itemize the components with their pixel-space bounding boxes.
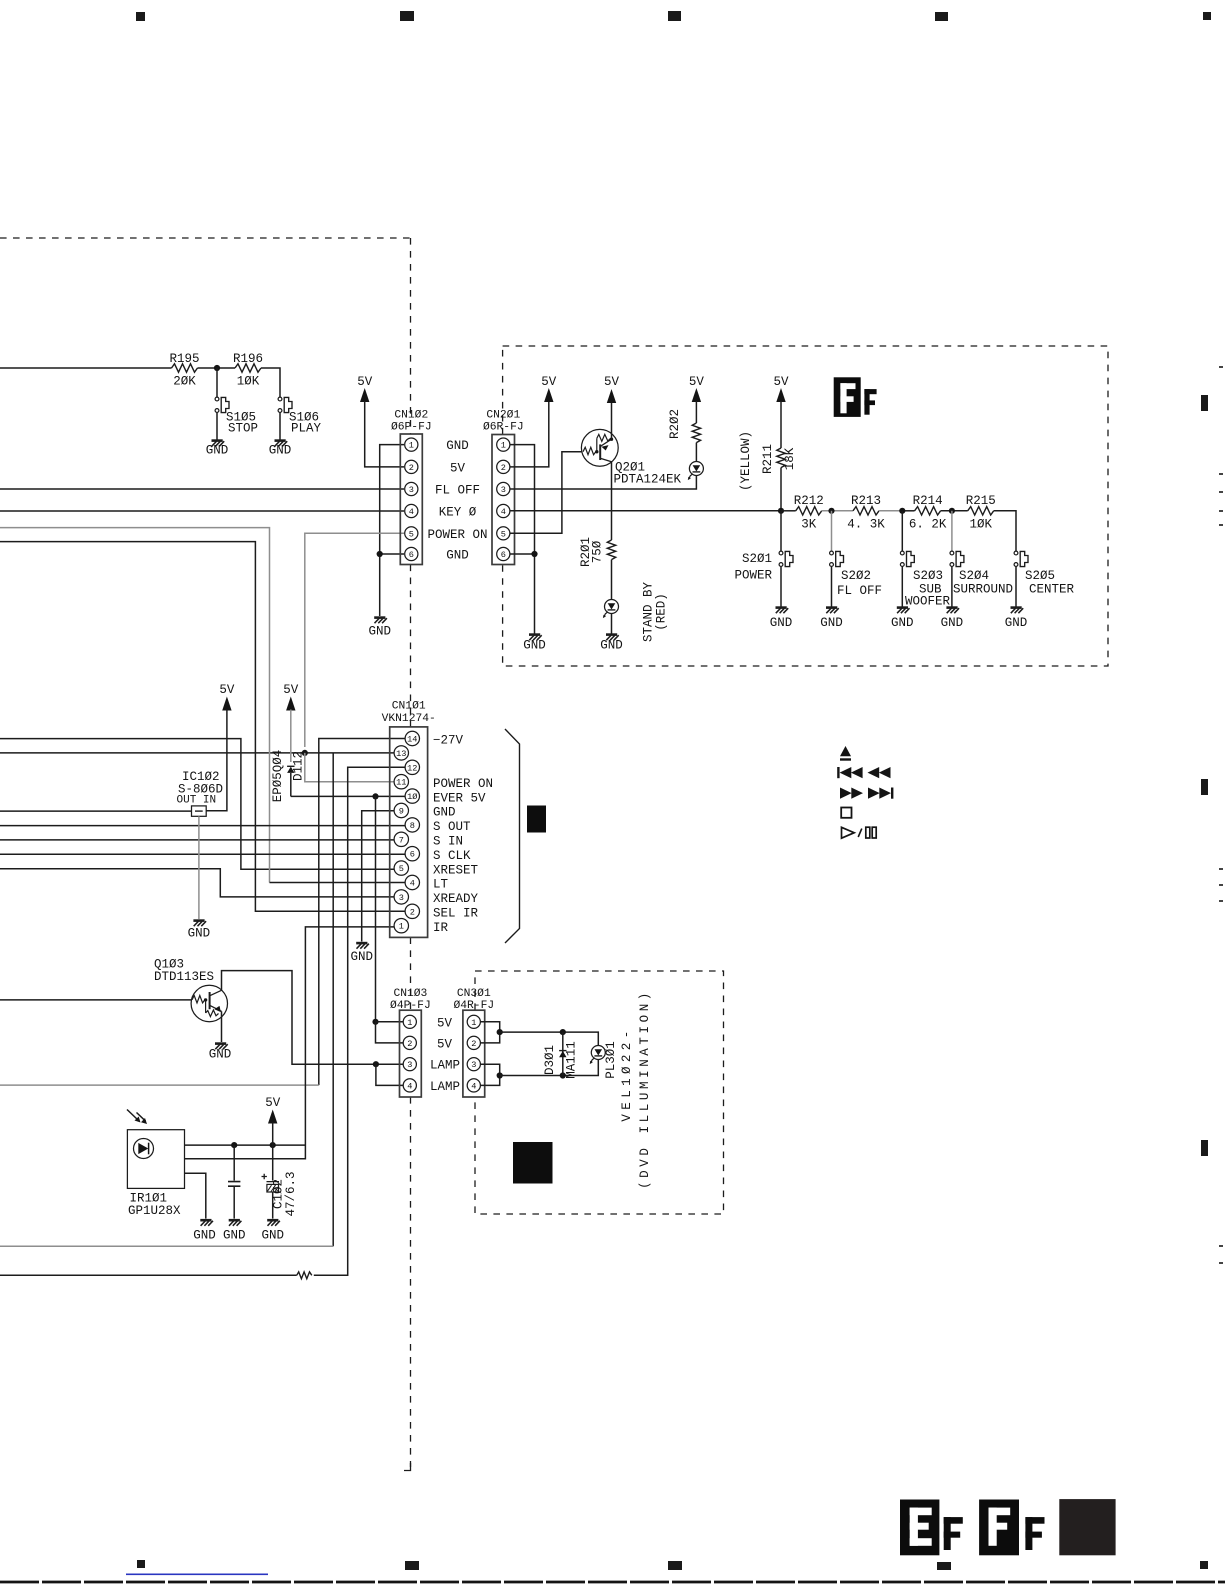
pin 4 CN103 bbox=[403, 1079, 416, 1092]
pin 14 CN101 bbox=[405, 731, 419, 745]
svg-text:(RED): (RED) bbox=[655, 593, 669, 631]
svg-text:GND: GND bbox=[223, 1229, 246, 1243]
svg-text:3: 3 bbox=[407, 1060, 412, 1070]
svg-text:GND: GND bbox=[600, 639, 623, 653]
svg-text:R213: R213 bbox=[851, 494, 881, 508]
switch S105 bbox=[215, 397, 229, 413]
wire S CLK from left edge to pin6 bbox=[0, 853, 406, 855]
wire R211 to ladder node bbox=[780, 468, 782, 511]
wire R212 to node B bbox=[822, 510, 853, 512]
resistor R201 750 bbox=[607, 540, 615, 560]
svg-text:Ø4P-FJ: Ø4P-FJ bbox=[390, 1000, 431, 1012]
icon fast forward / next track bbox=[840, 788, 852, 799]
wire Q103 base from left edge bbox=[0, 999, 193, 1001]
resistor R196 bbox=[235, 364, 261, 372]
bottom film edge dashed line bbox=[0, 1581, 1225, 1584]
connector CN301 body bbox=[463, 1010, 485, 1097]
wire D301 column bbox=[562, 1032, 564, 1075]
svg-text:6: 6 bbox=[410, 850, 415, 860]
registration mark bottom 3 bbox=[668, 1561, 682, 1570]
svg-text:1ØK: 1ØK bbox=[237, 375, 260, 389]
dashed border DVD illumination section bbox=[475, 971, 724, 1214]
node CN102 pin6 junction bbox=[377, 551, 383, 557]
svg-text:S2Ø3: S2Ø3 bbox=[913, 569, 943, 583]
svg-text:3: 3 bbox=[399, 893, 404, 903]
svg-text:VEL1Ø22-: VEL1Ø22- bbox=[620, 1026, 634, 1121]
wire R196 to S106 drop bbox=[261, 368, 280, 397]
svg-text:PDTA124EK: PDTA124EK bbox=[614, 473, 682, 487]
svg-text:CN2Ø1: CN2Ø1 bbox=[486, 410, 520, 422]
svg-text:2: 2 bbox=[410, 907, 415, 917]
wire grey -27V feed from left edge bbox=[0, 1084, 319, 1086]
pin 5 CN102 bbox=[405, 527, 418, 540]
wire 5V to R211 bbox=[780, 401, 782, 448]
svg-text:3K: 3K bbox=[801, 518, 817, 532]
wire L1 from left edge to CN101 pin4 LT bbox=[0, 528, 270, 883]
wire Q103 emitter to ground bbox=[221, 1011, 223, 1042]
registration mark right 3 bbox=[1201, 1140, 1208, 1156]
svg-text:5: 5 bbox=[409, 529, 414, 539]
node ladder C bbox=[899, 508, 905, 514]
wire 5V to CN102 pin2 bbox=[365, 401, 404, 467]
pin 13 CN101 bbox=[394, 746, 408, 760]
svg-text:1: 1 bbox=[399, 922, 404, 932]
IR receiver IR101 GP1U28X bbox=[127, 1130, 184, 1189]
svg-text:2ØK: 2ØK bbox=[173, 375, 196, 389]
pin 5 CN101 bbox=[394, 861, 408, 875]
svg-text:LAMP: LAMP bbox=[430, 1059, 460, 1073]
power symbol 5V (R211) bbox=[776, 388, 785, 402]
ground S106 bbox=[275, 441, 288, 447]
power symbol 5V (CN201 pin2) bbox=[544, 388, 553, 402]
wire CN102 pin1 to pin6 tie to ground bbox=[380, 445, 404, 616]
wire 5V to diode D112 bbox=[290, 710, 292, 763]
pin 3 CN201 bbox=[497, 482, 510, 495]
wire CN201 pin5 POWER ON to Q201 base bbox=[510, 452, 583, 534]
wire LED to ground bbox=[611, 614, 613, 635]
black square in DVD illumination box bbox=[513, 1142, 553, 1184]
power symbol 5V (IC102 IN) bbox=[222, 697, 231, 711]
pin 2 CN301 bbox=[467, 1036, 480, 1049]
wire S105 to ground bbox=[216, 413, 218, 441]
svg-text:1: 1 bbox=[471, 1018, 476, 1028]
svg-text:5V: 5V bbox=[265, 1096, 281, 1110]
dashed border left board: top edge bbox=[0, 237, 411, 239]
svg-text:R212: R212 bbox=[794, 494, 824, 508]
connector CN102 body bbox=[400, 434, 422, 565]
pin 1 CN201 bbox=[497, 438, 510, 451]
pin 4 CN301 bbox=[467, 1079, 480, 1092]
pin 1 CN301 bbox=[467, 1015, 480, 1028]
pin 1 CN101 bbox=[394, 919, 408, 933]
wire IC102 GND stem bbox=[198, 816, 200, 919]
svg-text:4: 4 bbox=[407, 1081, 412, 1091]
pin 4 CN201 bbox=[497, 504, 510, 517]
svg-text:D3Ø1: D3Ø1 bbox=[543, 1045, 557, 1075]
power symbol 5V (R202) bbox=[692, 388, 701, 402]
svg-text:CN1Ø2: CN1Ø2 bbox=[394, 410, 428, 422]
node ladder D bbox=[949, 508, 955, 514]
wire S IN from left edge to pin7 bbox=[0, 839, 395, 841]
resistor R214 6.2K bbox=[915, 507, 941, 515]
svg-text:18K: 18K bbox=[783, 447, 797, 470]
svg-text:LAMP: LAMP bbox=[430, 1080, 460, 1094]
svg-text:(DVD ILLUMINATION): (DVD ILLUMINATION) bbox=[638, 989, 652, 1189]
pin 4 CN102 bbox=[405, 504, 418, 517]
wire Q103 collector to CN103 pin3 bbox=[222, 971, 404, 1065]
node junction CN301 upper bbox=[497, 1029, 503, 1035]
svg-text:GND: GND bbox=[1005, 616, 1028, 630]
svg-text:S2Ø5: S2Ø5 bbox=[1025, 569, 1055, 583]
wire EVER 5V down to CN103 pin1 bbox=[375, 796, 377, 1021]
svg-text:EVER 5V: EVER 5V bbox=[433, 791, 486, 805]
capacitor C101 bbox=[233, 1145, 235, 1181]
svg-text:9: 9 bbox=[399, 807, 404, 817]
pin 2 CN101 bbox=[405, 904, 419, 918]
resistor R212 3K bbox=[781, 510, 796, 512]
ground C101 bbox=[229, 1220, 242, 1226]
svg-text:GND: GND bbox=[446, 439, 469, 453]
pin 3 CN301 bbox=[467, 1058, 480, 1071]
LED FL OFF (YELLOW) bbox=[688, 462, 704, 481]
svg-text:5V: 5V bbox=[541, 375, 557, 389]
svg-text:PL3Ø1: PL3Ø1 bbox=[604, 1041, 618, 1079]
photodiode inside IR101 bbox=[134, 1139, 154, 1159]
wire lower lamp rail bbox=[500, 1060, 599, 1076]
pin 3 CN101 bbox=[394, 890, 408, 904]
wire S106 to ground bbox=[279, 413, 281, 441]
svg-text:2: 2 bbox=[407, 1039, 412, 1049]
wire R195 to R196 with junction bbox=[198, 367, 236, 369]
dashed border left board: bottom corner hook bbox=[404, 1463, 411, 1471]
registration mark top 5 bbox=[1203, 12, 1211, 20]
svg-text:VKN1274-: VKN1274- bbox=[382, 713, 436, 725]
svg-text:CENTER: CENTER bbox=[1029, 583, 1075, 597]
registration mark bottom 2 bbox=[405, 1561, 419, 1570]
wire CN201 pin1 to pin6 tie to ground bbox=[510, 445, 535, 634]
incoming light arrows bbox=[127, 1110, 146, 1122]
wire pin12 to V4 riser down to zigzag line bbox=[314, 767, 406, 1275]
wire pin9 GND drop bbox=[362, 811, 406, 942]
wire CN301 pins3,4 tie bbox=[481, 1064, 500, 1085]
pin 10 CN101 bbox=[405, 789, 419, 803]
svg-text:R196: R196 bbox=[233, 352, 263, 366]
icon previous track / rewind bbox=[837, 767, 839, 778]
svg-text:GND: GND bbox=[269, 444, 292, 458]
pin 1 CN102 bbox=[405, 438, 418, 451]
svg-text:POWER ON: POWER ON bbox=[427, 528, 487, 542]
switch S201 POWER bbox=[780, 511, 782, 551]
dashed border F section bbox=[503, 346, 1108, 666]
svg-text:Ø6R-FJ: Ø6R-FJ bbox=[483, 422, 524, 434]
svg-text:GND: GND bbox=[193, 1229, 216, 1243]
pin 12 CN101 bbox=[405, 760, 419, 774]
switch S205 CENTER bbox=[1014, 551, 1028, 567]
pin 7 CN101 bbox=[394, 832, 408, 846]
svg-text:1Ø: 1Ø bbox=[407, 792, 417, 802]
node CN201 pin6 junction bbox=[531, 551, 537, 557]
logo F block bbox=[979, 1500, 1019, 1556]
wire 5V to R202 bbox=[695, 401, 697, 423]
logo F letter bbox=[864, 389, 876, 415]
svg-text:STOP: STOP bbox=[228, 422, 258, 436]
svg-text:6: 6 bbox=[501, 550, 506, 560]
svg-text:GND: GND bbox=[770, 616, 793, 630]
svg-text:2: 2 bbox=[409, 463, 414, 473]
pin 2 CN102 bbox=[405, 460, 418, 473]
svg-text:STAND BY: STAND BY bbox=[642, 581, 656, 642]
wire from left edge to R195 bbox=[0, 367, 172, 369]
wire CN103 pin3/pin4 tie bbox=[376, 1064, 403, 1085]
power symbol 5V (D112) bbox=[286, 697, 295, 711]
svg-text:R214: R214 bbox=[913, 494, 943, 508]
svg-text:5: 5 bbox=[501, 529, 506, 539]
pin 8 CN101 bbox=[405, 818, 419, 832]
svg-text:FL OFF: FL OFF bbox=[435, 484, 480, 498]
svg-text:EPØ5QØ4: EPØ5QØ4 bbox=[271, 750, 285, 803]
svg-text:3: 3 bbox=[471, 1060, 476, 1070]
wire R214 to node D bbox=[941, 510, 968, 512]
svg-text:R215: R215 bbox=[966, 494, 996, 508]
pin 5 CN201 bbox=[497, 527, 510, 540]
svg-text:GND: GND bbox=[209, 1048, 232, 1062]
registration mark right 2 bbox=[1201, 779, 1208, 795]
svg-text:R2Ø2: R2Ø2 bbox=[668, 409, 682, 439]
svg-text:MA111: MA111 bbox=[565, 1041, 579, 1079]
wire FL OFF from left edge to CN102 pin3 bbox=[0, 488, 404, 490]
svg-text:CN3Ø1: CN3Ø1 bbox=[457, 988, 491, 1000]
ground CN201 pins 1,6 bbox=[529, 635, 542, 641]
pin 9 CN101 bbox=[394, 803, 408, 817]
svg-text:GND: GND bbox=[261, 1229, 284, 1243]
blue underline bottom left bbox=[126, 1574, 268, 1576]
pin 3 CN102 bbox=[405, 482, 418, 495]
svg-text:S2Ø4: S2Ø4 bbox=[959, 569, 989, 583]
pin 1 CN103 bbox=[403, 1015, 416, 1028]
svg-text:CN1Ø1: CN1Ø1 bbox=[392, 701, 426, 713]
node junction cap C101 bbox=[231, 1142, 237, 1148]
svg-text:CN1Ø3: CN1Ø3 bbox=[393, 988, 427, 1000]
svg-text:14: 14 bbox=[407, 735, 417, 745]
wire zigzag line to left edge bbox=[0, 1274, 297, 1276]
svg-text:S OUT: S OUT bbox=[433, 820, 471, 834]
svg-text:POWER: POWER bbox=[734, 569, 772, 583]
svg-text:S2Ø1: S2Ø1 bbox=[742, 552, 772, 566]
svg-text:Ø6P-FJ: Ø6P-FJ bbox=[391, 422, 432, 434]
registration mark top 4 bbox=[935, 12, 948, 21]
resistor R211 18K bbox=[777, 448, 785, 468]
icon stop bbox=[841, 808, 851, 818]
node junction D301 top bbox=[560, 1029, 566, 1035]
svg-text:R195: R195 bbox=[169, 352, 199, 366]
svg-text:5V: 5V bbox=[604, 375, 620, 389]
svg-text:S IN: S IN bbox=[433, 835, 463, 849]
svg-text:3: 3 bbox=[409, 485, 414, 495]
ground S105 bbox=[212, 441, 225, 447]
wire IR101 Vcc pin to caps and 5V bbox=[185, 1144, 306, 1146]
capacitor C102 47/6.3 electrolytic bbox=[272, 1145, 274, 1181]
pin 6 CN201 bbox=[497, 547, 510, 560]
svg-text:1: 1 bbox=[409, 441, 414, 451]
svg-text:S CLK: S CLK bbox=[433, 849, 471, 863]
wire grey feed from left edge to V3 bbox=[0, 1245, 333, 1247]
svg-text:KEY Ø: KEY Ø bbox=[439, 506, 477, 520]
svg-text:GND: GND bbox=[820, 616, 843, 630]
wire net to CN101 pin13 from left edge bbox=[0, 752, 395, 754]
svg-text:FL OFF: FL OFF bbox=[837, 584, 882, 598]
ground IR101 bbox=[200, 1220, 213, 1226]
switch S204 SURROUND bbox=[951, 511, 953, 551]
svg-text:GND: GND bbox=[941, 616, 964, 630]
wire R201 to standby LED bbox=[611, 560, 613, 600]
svg-text:1ØK: 1ØK bbox=[969, 518, 992, 532]
pin 2 CN201 bbox=[497, 460, 510, 473]
wire CN201 pin4 KEY 0 to resistor ladder bbox=[510, 510, 781, 512]
ground Q103 bbox=[215, 1044, 228, 1050]
wire D112 to EVER 5V line bbox=[290, 773, 292, 796]
pin 2 CN103 bbox=[403, 1036, 416, 1049]
registration mark right 1 bbox=[1201, 395, 1208, 411]
ground standby LED bbox=[606, 635, 619, 641]
dark square bottom right bbox=[1059, 1499, 1115, 1555]
registration mark top 3 bbox=[668, 11, 681, 21]
logo E block bbox=[900, 1500, 939, 1556]
svg-text:SURROUND: SURROUND bbox=[953, 583, 1013, 597]
pin 6 CN102 bbox=[405, 547, 418, 560]
svg-text:S2Ø2: S2Ø2 bbox=[841, 569, 871, 583]
svg-text:5V: 5V bbox=[357, 375, 373, 389]
svg-text:POWER ON: POWER ON bbox=[433, 777, 493, 791]
svg-text:GP1U28X: GP1U28X bbox=[128, 1204, 181, 1218]
logo F letter small 1 bbox=[944, 1517, 963, 1550]
wire CN103 pin1/pin2 tie bbox=[376, 1022, 404, 1043]
svg-text:13: 13 bbox=[396, 749, 406, 759]
wire Q201 collector to R201 bbox=[611, 462, 613, 540]
svg-text:47/6.3: 47/6.3 bbox=[284, 1171, 298, 1216]
svg-text:5V: 5V bbox=[283, 683, 299, 697]
svg-text:D112: D112 bbox=[292, 751, 306, 781]
wire pin1 IR down to IR101 bbox=[185, 927, 407, 1159]
svg-text:DTD113ES: DTD113ES bbox=[154, 970, 214, 984]
node junction CN103 pin3 bbox=[373, 1061, 379, 1067]
cable bundle bracket right of CN101 bbox=[505, 729, 520, 943]
wire POWER ON (grey) to CN102 pin5 bbox=[305, 533, 404, 747]
wire R215 to S205 bbox=[994, 511, 1016, 551]
svg-text:GND: GND bbox=[891, 616, 914, 630]
svg-text:5V: 5V bbox=[219, 683, 235, 697]
node junction EVER 5V bbox=[372, 793, 378, 799]
svg-text:GND: GND bbox=[188, 927, 211, 941]
svg-text:4: 4 bbox=[410, 879, 415, 889]
wire XRESET feed from left edge down to pin5 bbox=[0, 739, 395, 870]
wire KEY 0 from left edge to CN102 pin4 bbox=[0, 510, 404, 512]
wire L2 from left edge to CN101 pin2 SEL IR bbox=[0, 542, 406, 912]
diode D112 EP05Q04 bbox=[287, 766, 294, 773]
connector CN103 body bbox=[400, 1010, 422, 1097]
svg-text:11: 11 bbox=[396, 778, 406, 788]
svg-text:XREADY: XREADY bbox=[433, 892, 479, 906]
switch S202 FL OFF bbox=[831, 511, 833, 551]
node junction CN301 lower bbox=[497, 1072, 503, 1078]
registration mark bottom 5 bbox=[1200, 1561, 1208, 1569]
svg-text:(YELLOW): (YELLOW) bbox=[739, 431, 753, 491]
wire R202 to LED bbox=[695, 443, 697, 462]
svg-text:5V: 5V bbox=[437, 1016, 453, 1030]
svg-text:Ø4R-FJ: Ø4R-FJ bbox=[453, 1000, 494, 1012]
svg-text:−27V: −27V bbox=[433, 734, 464, 748]
power symbol 5V (Q201 emitter) bbox=[607, 389, 616, 403]
wire junction to S105 bbox=[216, 368, 218, 397]
svg-text:4: 4 bbox=[501, 507, 506, 517]
node ladder B bbox=[828, 508, 834, 514]
CN101 net labels bbox=[433, 734, 493, 935]
svg-text:GND: GND bbox=[446, 549, 469, 563]
svg-text:GND: GND bbox=[350, 950, 373, 964]
svg-text:3: 3 bbox=[501, 485, 506, 495]
wire pin14 -27V to V2 riser bbox=[319, 739, 406, 1086]
wire pin10 EVER 5V from D112 with junction bbox=[291, 795, 406, 797]
connector CN101 body bbox=[390, 727, 428, 938]
wire Q201 emitter to 5V bbox=[611, 403, 613, 440]
switch S106 bbox=[278, 397, 292, 413]
svg-text:6: 6 bbox=[409, 550, 414, 560]
svg-text:5V: 5V bbox=[689, 375, 705, 389]
wire IC102 OUT to left edge bbox=[0, 810, 192, 812]
resistor inline on bottom feed bbox=[297, 1272, 312, 1279]
dashed border left board: right edge bbox=[410, 238, 412, 434]
wire XREADY from left edge to pin3 bbox=[0, 869, 395, 897]
LED standby (RED) bbox=[603, 600, 619, 619]
icon eject bbox=[840, 746, 851, 756]
svg-text:IR: IR bbox=[433, 921, 449, 935]
svg-text:5V: 5V bbox=[437, 1037, 453, 1051]
wire 5V down to IC102 IN bbox=[206, 710, 227, 811]
svg-text:GND: GND bbox=[368, 625, 391, 639]
svg-text:6. 2K: 6. 2K bbox=[909, 518, 947, 532]
ground CN102 pins 1,6 bbox=[374, 618, 387, 624]
pin 4 CN101 bbox=[405, 875, 419, 889]
wire upper lamp rail bbox=[500, 1032, 599, 1045]
node junction D301 bottom bbox=[560, 1072, 566, 1078]
LED PL301 lamp bbox=[590, 1046, 606, 1065]
svg-text:2: 2 bbox=[501, 463, 506, 473]
pin 11 CN101 bbox=[394, 775, 408, 789]
logo F letter small 2 bbox=[1025, 1517, 1044, 1550]
power symbol 5V (CN102 pin2) bbox=[360, 388, 369, 402]
power symbol 5V (IR101) bbox=[268, 1110, 277, 1124]
svg-text:WOOFER: WOOFER bbox=[905, 595, 951, 609]
registration mark bottom 4 bbox=[937, 1562, 951, 1570]
diode D301 MA111 bbox=[559, 1051, 566, 1058]
node junction CN103 pin1 bbox=[372, 1019, 378, 1025]
svg-text:XRESET: XRESET bbox=[433, 863, 479, 877]
svg-text:2: 2 bbox=[471, 1039, 476, 1049]
node ladder A bbox=[778, 508, 784, 514]
node junction POWER ON / pin13 bbox=[302, 750, 308, 756]
switch S203 SUB WOOFER bbox=[901, 511, 903, 551]
registration mark bottom 1 bbox=[137, 1560, 145, 1568]
svg-text:GND: GND bbox=[523, 639, 546, 653]
svg-text:PLAY: PLAY bbox=[291, 422, 322, 436]
edge tick marks right margin bbox=[1219, 366, 1223, 1264]
connector CN201 body bbox=[492, 435, 515, 565]
resistor R213 4.3K bbox=[853, 507, 879, 515]
logo F block bbox=[834, 377, 861, 417]
svg-text:4: 4 bbox=[409, 507, 414, 517]
svg-text:8: 8 bbox=[410, 821, 415, 831]
wire POWER ON grey to CN101 pin11 bbox=[305, 753, 395, 782]
svg-text:5: 5 bbox=[399, 864, 404, 874]
